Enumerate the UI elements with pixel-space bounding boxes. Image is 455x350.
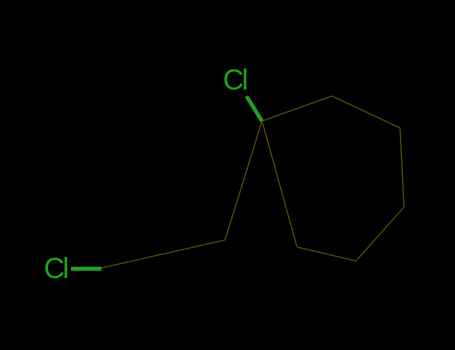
chain bond B-D xyxy=(101,240,225,268)
chain bond V1-B xyxy=(225,121,262,240)
ring bond V5-V6 xyxy=(297,247,356,261)
svg-text:Cl: Cl xyxy=(223,65,247,97)
svg-text:Cl: Cl xyxy=(44,253,68,285)
ring bond V6-V1 xyxy=(262,121,297,247)
ring bond V2-V3 xyxy=(332,96,400,128)
ring bond V1-V2 xyxy=(262,96,332,121)
C-Cl bond bottom (green) xyxy=(71,267,102,271)
ring bond V3-V4 xyxy=(400,128,404,207)
ring bond V4-V5 xyxy=(356,207,404,261)
C-Cl bond top (green) xyxy=(247,96,263,121)
